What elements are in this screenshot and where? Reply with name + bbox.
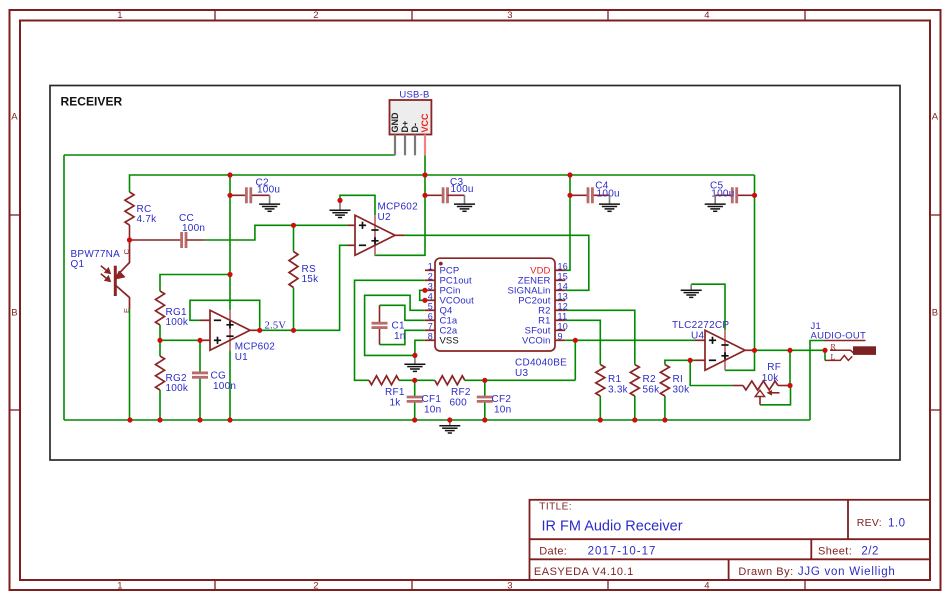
svg-text:RF1: RF1 bbox=[385, 387, 405, 398]
wire RF wiper loop bbox=[760, 386, 791, 405]
svg-text:12: 12 bbox=[558, 301, 569, 311]
svg-text:VSS: VSS bbox=[440, 336, 459, 347]
svg-text:Sheet:: Sheet: bbox=[818, 546, 852, 558]
resistor R2 56k bbox=[630, 365, 660, 397]
svg-text:JJG von Wielligh: JJG von Wielligh bbox=[798, 566, 896, 578]
wire bottom ground rail bbox=[64, 419, 810, 421]
wire C1 top to pin6 C1a bbox=[380, 305, 425, 320]
op-amp U2 MCP602 bbox=[348, 202, 418, 256]
wire U3 pin16 VDD supply bbox=[565, 175, 570, 270]
svg-text:2/2: 2/2 bbox=[861, 546, 879, 558]
svg-text:16: 16 bbox=[558, 261, 569, 271]
svg-text:100n: 100n bbox=[213, 381, 236, 392]
wire U4 VSS to ground bbox=[691, 284, 725, 330]
svg-text:TLC2272CP: TLC2272CP bbox=[672, 320, 729, 331]
svg-text:30k: 30k bbox=[673, 385, 691, 396]
svg-text:RI: RI bbox=[673, 374, 684, 385]
wire U2 VSS to ground bbox=[340, 195, 375, 215]
wire C5 ground to plate bbox=[715, 194, 732, 196]
svg-text:8: 8 bbox=[428, 331, 433, 341]
svg-text:1.0: 1.0 bbox=[888, 518, 906, 530]
wire RS bottom to 2.5V net bbox=[293, 288, 295, 331]
svg-text:Drawn By:: Drawn By: bbox=[738, 566, 793, 578]
svg-text:3: 3 bbox=[507, 10, 513, 21]
ground at U4 VSS bbox=[690, 284, 692, 290]
svg-text:RF2: RF2 bbox=[451, 387, 471, 398]
svg-text:VCC: VCC bbox=[420, 113, 430, 133]
capacitor C1 1n bbox=[372, 321, 406, 343]
svg-text:U3: U3 bbox=[515, 368, 528, 379]
svg-text:CF1: CF1 bbox=[422, 394, 442, 405]
resistor RF2 600 bbox=[435, 376, 471, 409]
svg-text:1: 1 bbox=[117, 10, 123, 21]
wire U3 pin11 to R1 bbox=[565, 320, 600, 364]
svg-text:RF: RF bbox=[767, 362, 781, 373]
capacitor CF2 10n bbox=[477, 394, 512, 416]
svg-text:L: L bbox=[831, 353, 836, 362]
USB-B pin D- bbox=[414, 135, 416, 156]
wire USB VCC drop to rail and C3 and U2 VDD bbox=[375, 155, 426, 255]
resistor RS 15k bbox=[289, 252, 319, 288]
svg-text:56k: 56k bbox=[643, 385, 661, 396]
column ticks top bbox=[214, 10, 216, 21]
capacitor CG 100n bbox=[192, 371, 236, 393]
svg-text:R: R bbox=[831, 342, 837, 351]
RECEIVER sheet box bbox=[50, 86, 900, 461]
svg-text:EASYEDA V4.10.1: EASYEDA V4.10.1 bbox=[534, 566, 634, 578]
wire CF2 leads bbox=[484, 380, 486, 397]
svg-text:11: 11 bbox=[558, 311, 568, 321]
svg-text:4: 4 bbox=[704, 580, 710, 591]
svg-text:4.7k: 4.7k bbox=[137, 214, 158, 225]
column ticks bottom bbox=[214, 580, 216, 590]
ground at C5 bbox=[714, 195, 716, 204]
svg-text:C1: C1 bbox=[392, 321, 405, 332]
svg-text:4: 4 bbox=[704, 10, 710, 21]
svg-text:D+: D+ bbox=[400, 121, 410, 133]
svg-text:15: 15 bbox=[558, 271, 569, 281]
wire CC to U2 plus input bbox=[205, 225, 348, 240]
svg-text:B: B bbox=[932, 308, 939, 319]
svg-text:100k: 100k bbox=[166, 383, 189, 394]
svg-text:B: B bbox=[11, 308, 18, 319]
potentiometer RF 10k bbox=[732, 362, 790, 405]
wire U3 pins 3-4 tie bbox=[420, 290, 425, 300]
resistor RI 30k bbox=[660, 365, 690, 397]
row ticks right bbox=[930, 214, 941, 216]
svg-text:USB-B: USB-B bbox=[399, 89, 429, 100]
svg-text:A: A bbox=[932, 112, 939, 123]
wire C1 leads bbox=[379, 305, 381, 323]
svg-text:CG: CG bbox=[211, 371, 227, 382]
op-amp U1 MCP602 bbox=[200, 310, 275, 363]
wire U3 pin2 PC1out to RF1 bbox=[355, 280, 425, 380]
svg-text:100u: 100u bbox=[257, 185, 280, 196]
svg-text:100u: 100u bbox=[451, 184, 474, 195]
svg-text:MCP602: MCP602 bbox=[378, 202, 419, 213]
svg-text:IR FM Audio Receiver: IR FM Audio Receiver bbox=[542, 519, 683, 535]
connector USB-B bbox=[390, 89, 432, 134]
resistor RC 4.7k bbox=[125, 192, 157, 225]
wire USB GND to left rail bbox=[64, 154, 395, 156]
svg-text:7: 7 bbox=[428, 321, 433, 331]
svg-text:VCOin: VCOin bbox=[522, 336, 550, 347]
wire R2 bottom bbox=[634, 396, 636, 420]
resistor RF1 1k bbox=[369, 376, 405, 409]
wire ground riser to J1 sleeve bbox=[810, 341, 825, 421]
svg-text:U4: U4 bbox=[691, 331, 704, 342]
wire R1 bottom bbox=[599, 396, 601, 420]
ground at C4 bbox=[609, 195, 611, 204]
svg-text:Date:: Date: bbox=[539, 546, 567, 558]
svg-text:5: 5 bbox=[428, 301, 433, 311]
resistor RG2 100k bbox=[156, 356, 189, 394]
capacitor CF1 10n bbox=[407, 394, 442, 416]
svg-text:1: 1 bbox=[117, 580, 123, 591]
svg-text:3.3k: 3.3k bbox=[608, 385, 629, 396]
wire C4 to ground stub bbox=[592, 194, 609, 196]
row ticks left bbox=[10, 214, 21, 216]
wire RS top bbox=[293, 225, 295, 251]
wire U3 pin5 inhibit to ground bbox=[365, 295, 425, 355]
wire RI top to U4 minus bbox=[665, 360, 695, 364]
USB-B pin GND bbox=[394, 135, 396, 156]
wire U1 feedback loop bbox=[190, 300, 260, 330]
svg-text:600: 600 bbox=[450, 398, 468, 409]
svg-text:3: 3 bbox=[507, 580, 513, 591]
capacitor C2 100u bbox=[230, 178, 280, 204]
capacitor C5 100u bbox=[710, 181, 737, 204]
capacitor CC 100n bbox=[130, 213, 206, 248]
title block bbox=[530, 500, 931, 580]
svg-text:13: 13 bbox=[558, 291, 569, 301]
wire RI bottom bbox=[664, 396, 666, 420]
svg-text:2017-10-17: 2017-10-17 bbox=[588, 546, 657, 558]
wire RG2 bottom to ground rail bbox=[159, 390, 161, 420]
wire J1 R-L jumper bbox=[824, 350, 826, 360]
svg-text:R2: R2 bbox=[643, 374, 656, 385]
svg-text:R1: R1 bbox=[608, 374, 621, 385]
svg-text:100k: 100k bbox=[166, 317, 189, 328]
svg-text:RECEIVER: RECEIVER bbox=[61, 95, 123, 109]
wire U4 output to J1 bbox=[755, 349, 826, 351]
svg-text:2.5V: 2.5V bbox=[265, 320, 287, 331]
svg-text:100u: 100u bbox=[597, 188, 620, 199]
wire left ground rail vertical bbox=[63, 155, 65, 420]
wire RG1 top to VCC branch bbox=[160, 275, 230, 292]
wire VCOin drop to loop filter bbox=[574, 340, 576, 380]
svg-text:6: 6 bbox=[428, 311, 433, 321]
wire U3 pin8 VSS to ground bbox=[415, 340, 425, 355]
ground at C2 bbox=[269, 195, 271, 204]
svg-text:U2: U2 bbox=[378, 212, 391, 223]
resistor R1 3.3k bbox=[596, 365, 629, 397]
IC U3 CD4040BE bbox=[425, 258, 568, 379]
svg-text:REV:: REV: bbox=[857, 517, 882, 529]
wire C2 to ground stub bbox=[251, 194, 270, 196]
svg-text:10n: 10n bbox=[494, 405, 511, 416]
svg-text:D-: D- bbox=[410, 123, 420, 133]
wire loop filter row RF1 RF2 bbox=[399, 379, 435, 381]
svg-text:CD4040BE: CD4040BE bbox=[515, 358, 567, 369]
wire VCC rail bbox=[130, 175, 755, 192]
wire CG leads bbox=[199, 340, 201, 373]
wire RG1 RG2 to U1 plus bbox=[159, 325, 161, 356]
svg-text:9: 9 bbox=[558, 331, 563, 341]
resistor RG1 100k bbox=[156, 291, 189, 328]
ground at C3 bbox=[464, 195, 466, 204]
wire node RC CC Q1 bbox=[129, 225, 131, 240]
svg-text:14: 14 bbox=[558, 281, 569, 291]
svg-text:3: 3 bbox=[428, 281, 433, 291]
phototransistor Q1 BPW77NA bbox=[71, 240, 131, 420]
USB-B pin VCC bbox=[424, 135, 426, 156]
wire U3 pin12 to R2 bbox=[565, 310, 635, 364]
wire C1 bottom to pin7 C2a bbox=[380, 330, 425, 344]
svg-text:A: A bbox=[11, 112, 18, 123]
wire VCC right drop to C5 and U4 bbox=[725, 175, 755, 370]
wire RF right to output bbox=[789, 350, 791, 385]
svg-text:4: 4 bbox=[428, 291, 433, 301]
junction dots bbox=[227, 172, 232, 177]
ground at U2 VSS bbox=[330, 200, 351, 217]
ground on bottom rail bbox=[449, 420, 451, 426]
wire VCC branch x230 through U1 bbox=[229, 175, 231, 310]
capacitor C3 100u bbox=[425, 177, 474, 204]
svg-text:10: 10 bbox=[558, 321, 569, 331]
svg-text:GND: GND bbox=[390, 112, 400, 133]
wire U2 output to U3 SIGNALin bbox=[404, 235, 589, 290]
svg-text:2: 2 bbox=[313, 580, 319, 591]
svg-text:C: C bbox=[122, 249, 131, 255]
USB-B pin D+ bbox=[404, 135, 406, 156]
connector J1 AUDIO-OUT bbox=[811, 321, 876, 362]
ground at U3 VSS bbox=[414, 355, 416, 364]
svg-text:1k: 1k bbox=[390, 398, 402, 409]
wire CF1 leads bbox=[414, 380, 416, 397]
svg-text:2: 2 bbox=[313, 10, 319, 21]
svg-text:1: 1 bbox=[428, 261, 433, 271]
wire C5 to VCC drop bbox=[737, 194, 755, 196]
svg-text:2: 2 bbox=[428, 271, 433, 281]
svg-text:15k: 15k bbox=[302, 274, 320, 285]
svg-text:10n: 10n bbox=[424, 405, 441, 416]
svg-text:10k: 10k bbox=[762, 373, 780, 384]
wire VCOin net pin9 to U4 plus bbox=[565, 339, 695, 341]
svg-text:Q1: Q1 bbox=[71, 259, 85, 270]
svg-text:TITLE:: TITLE: bbox=[539, 502, 572, 513]
svg-text:100n: 100n bbox=[182, 223, 205, 234]
svg-text:CF2: CF2 bbox=[492, 394, 512, 405]
svg-text:1n: 1n bbox=[394, 331, 406, 342]
capacitor C4 100u bbox=[570, 181, 620, 204]
wire 2.5V net U1 out to U2 minus bbox=[260, 245, 348, 330]
svg-text:U1: U1 bbox=[235, 352, 248, 363]
svg-text:MCP602: MCP602 bbox=[235, 342, 276, 353]
op-amp U4 TLC2272CP bbox=[672, 320, 755, 370]
wire U4 minus to RF left bbox=[690, 360, 732, 385]
